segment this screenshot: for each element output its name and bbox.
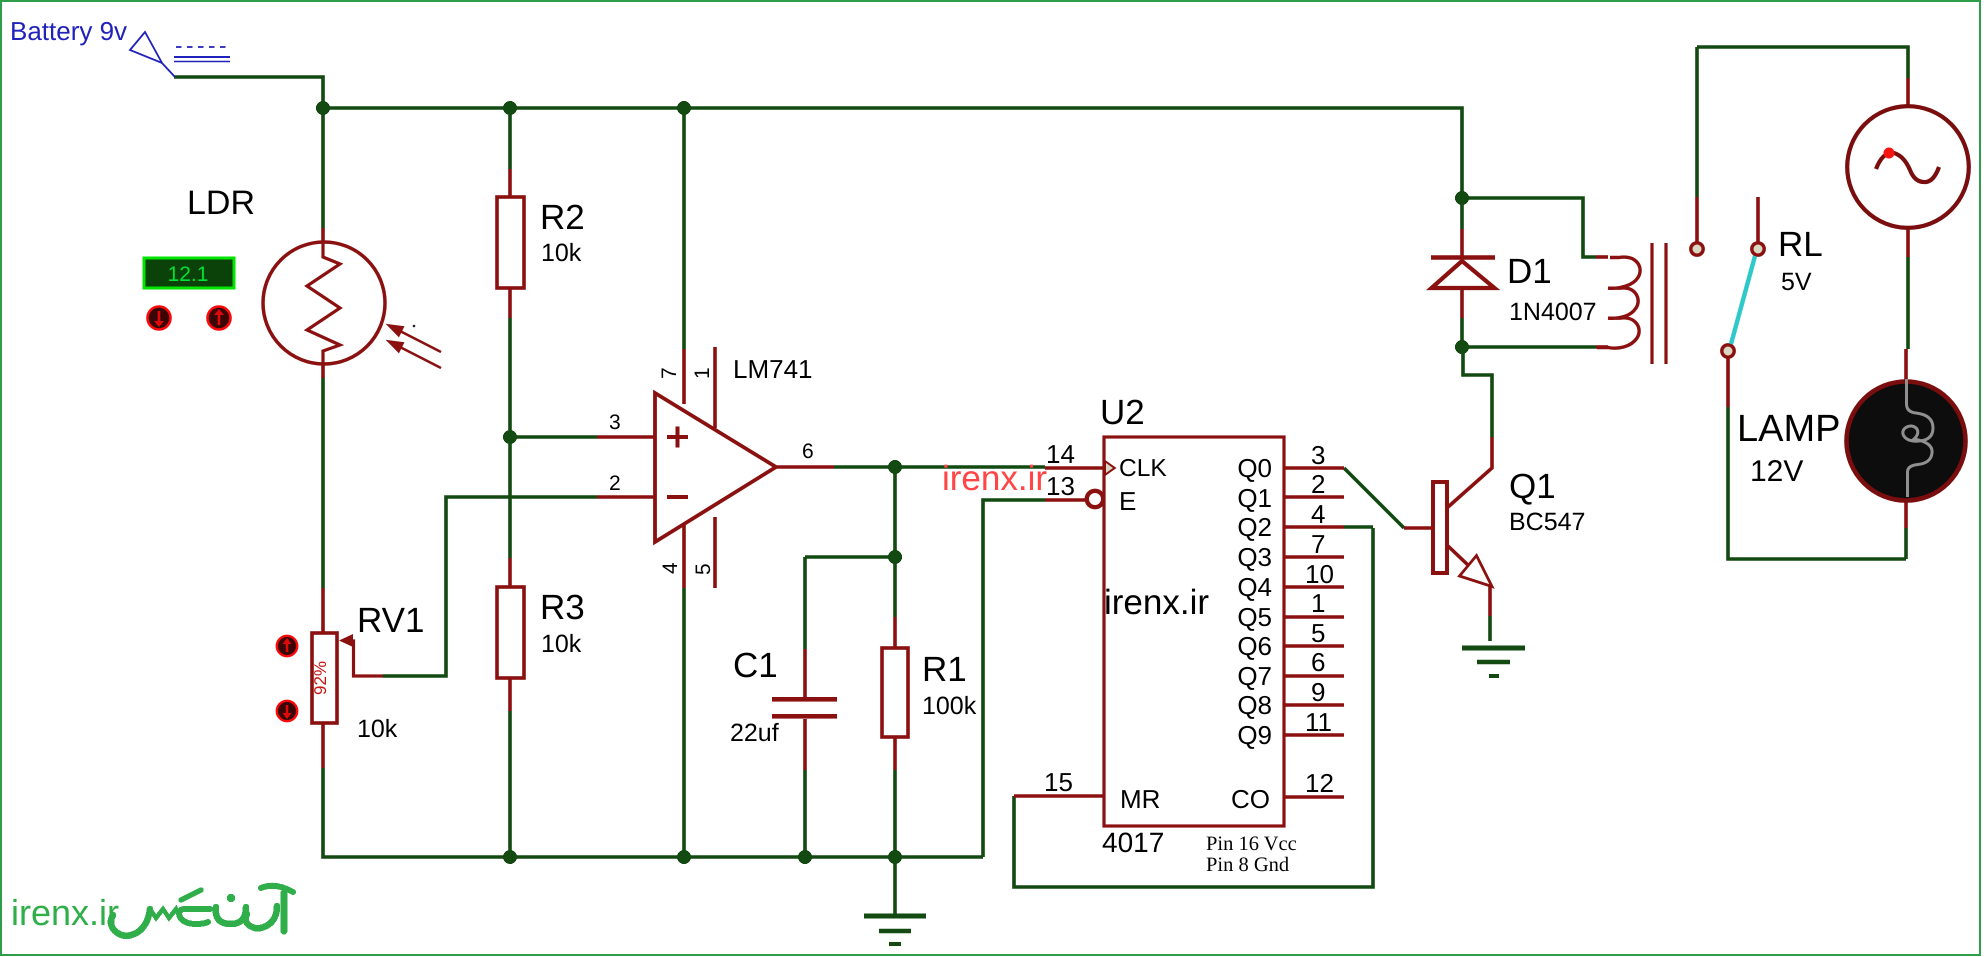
svg-text:12.1: 12.1 [168,263,209,286]
wire top bus [323,108,1462,198]
svg-text:Pin 16 Vcc: Pin 16 Vcc [1206,833,1297,855]
transistor Q1 emitter arrow [1460,556,1493,587]
svg-text:Q0: Q0 [1237,453,1272,483]
svg-text:6: 6 [802,440,814,463]
svg-text:irenx.ir: irenx.ir [1104,583,1209,622]
svg-text:2: 2 [1311,469,1325,499]
op-amp plus [667,427,688,448]
wire Q1 emitter lead [1448,546,1490,616]
svg-text:irenx.ir: irenx.ir [11,892,119,933]
svg-text:12V: 12V [1750,455,1803,488]
LDR light arrows [389,326,441,369]
node bus pin4 [677,850,691,864]
wire R2 top [508,108,512,169]
relay NO contact [1722,345,1734,357]
wire switch to lamp bottom [1728,407,1906,559]
wire C1 bottom to bus [803,770,807,857]
svg-text:CO: CO [1231,784,1270,814]
wire R1 top lead [893,617,897,648]
svg-text:R3: R3 [540,588,585,627]
svg-text:10k: 10k [357,715,398,743]
wire top-right link [1697,47,1908,78]
svg-text:U2: U2 [1100,393,1145,432]
node D1 top [1455,191,1469,205]
svg-text:MR: MR [1120,784,1160,814]
wire R2 bottom lead [508,288,512,318]
wire coil top lead [1596,255,1608,259]
svg-text:13: 13 [1046,471,1075,501]
relay pole contact [1691,243,1703,255]
wire AC top stub [1906,78,1910,107]
wire opamp pin5 stub [713,517,717,588]
wire op-amp out to CLK [834,465,1045,469]
LDR body [263,242,385,364]
wire Q3 pin lead [1284,555,1344,559]
svg-text:R2: R2 [540,198,585,237]
watermark Persian ayrenks [111,886,293,936]
wire LDR bottom lead [321,364,325,378]
wire RV1 bottom lead [321,723,325,768]
wire RV1 bottom to ground bus [323,768,983,857]
svg-text:2: 2 [609,472,621,495]
wire NC stub [1756,197,1760,242]
svg-text:Q1: Q1 [1509,467,1556,506]
svg-text:11: 11 [1305,707,1332,737]
svg-text:C1: C1 [733,646,778,685]
wire RV1 wiper to pin2 [383,497,597,676]
svg-text:Q6: Q6 [1237,631,1272,661]
op-amp minus [667,495,688,499]
svg-text:6: 6 [1311,647,1325,677]
wire Q6 pin lead [1284,644,1344,648]
wire Q1 pin lead [1284,495,1344,499]
LDR voltmeter display [144,258,234,288]
svg-text:3: 3 [1311,440,1325,470]
wire CO pin lead [1284,795,1344,799]
node pin7 top [677,101,691,115]
capacitor C1 plates [772,697,837,719]
wire E lead [1045,498,1086,502]
wire Q5 pin lead [1284,615,1344,619]
wire lamp bottom red stub [1904,499,1908,528]
op-amp U1 triangle [655,393,776,542]
svg-text:3: 3 [609,411,621,434]
svg-text:RV1: RV1 [357,601,424,640]
diode D1 [1431,258,1495,289]
svg-text:92%: 92% [311,661,330,695]
wire R1 bottom lead [893,737,897,770]
svg-text:7: 7 [1311,529,1325,559]
wire E pin to bus [983,500,1045,857]
wire RV1 top lead [321,588,325,633]
wire opamp pin4 lead [682,522,686,588]
svg-text:Pin 8 Gnd: Pin 8 Gnd [1206,854,1289,876]
svg-text:1: 1 [1311,588,1325,618]
wire R1 bottom to bus [893,770,897,857]
svg-text:CLK: CLK [1119,455,1167,482]
wire R3 top lead [508,558,512,587]
transistor Q1 base bar [1433,482,1447,573]
svg-text:12: 12 [1305,768,1334,798]
svg-text:LM741: LM741 [733,354,813,384]
wire CLK lead [1045,466,1104,470]
wire relay pole riser [1695,47,1699,197]
wire node to op-amp pin3 [510,435,597,439]
wire LDR bottom to RV1 [321,378,325,588]
resistor R3 [497,587,524,678]
wire switch bottom stub [1726,358,1730,407]
svg-text:9: 9 [1311,677,1325,707]
wire C1 top [805,555,895,559]
svg-text:E: E [1119,486,1136,516]
RV1 button down [277,701,297,721]
node R2 top [503,101,517,115]
node op-amp out [888,460,902,474]
svg-text:LDR: LDR [187,184,255,222]
node bus R1 [888,850,902,864]
relay core lines [1652,243,1666,364]
wire coil bottom lead [1596,345,1608,349]
wire Q0 to Q1 base diagonal [1344,468,1404,528]
node bus R3 [503,850,517,864]
wire lamp bottom stub [1904,528,1908,559]
wire Q2 lead extension [1344,525,1373,529]
wire relay coil bottom link [1462,345,1596,349]
wire pin7 [682,108,686,349]
relay coil [1597,257,1640,348]
IC U2 4017 box [1104,437,1284,826]
LDR button up [208,307,231,330]
svg-text:10k: 10k [541,630,582,658]
wire battery to top bus [174,77,323,108]
wire out node down [893,467,897,558]
wire Q4 pin lead [1284,585,1344,589]
wire lamp top stub [1904,349,1908,383]
CLK input arrow [1103,459,1117,478]
wire Q1 base lead [1404,526,1433,530]
wire D1 bottom [1460,318,1464,348]
relay switch blade [1731,256,1755,344]
wire D1 top junction down [1460,198,1464,229]
potentiometer RV1 wiper arrow [339,634,383,676]
svg-text:4: 4 [659,562,682,574]
wire emitter to ground [1488,616,1492,641]
potentiometer RV1 body [312,633,337,723]
wire Q1 collector lead [1448,437,1492,507]
node bus C1 [798,850,812,864]
wire AC to lamp [1906,257,1910,349]
wire C1 top lead [803,557,807,649]
svg-text:Q8: Q8 [1237,690,1272,720]
svg-text:Q3: Q3 [1237,542,1272,572]
wire opamp pin7 lead [682,349,686,404]
svg-text:100k: 100k [922,692,977,720]
wire opamp pin6 lead [776,465,834,469]
wire Q0 pin lead [1284,466,1344,470]
node pin3 [503,430,517,444]
svg-text:irenx.ir: irenx.ir [942,459,1047,498]
wire C1 top plate lead [803,649,807,697]
svg-text:Q9: Q9 [1237,720,1272,750]
wire LDR top lead [321,228,325,243]
wire opamp pin2 lead [597,495,656,499]
wire D1 cathode lead [1460,229,1464,257]
LDR button down [148,307,171,330]
svg-text:LAMP: LAMP [1737,408,1840,450]
svg-text:10k: 10k [541,239,582,267]
svg-text:D1: D1 [1507,252,1552,291]
wire pole stub [1695,197,1699,242]
svg-text:1: 1 [691,367,714,379]
resistor R1 [882,648,908,737]
svg-text:4017: 4017 [1102,827,1164,858]
wire Q7 pin lead [1284,674,1344,678]
svg-text:10: 10 [1305,559,1334,589]
RV1 button up [277,636,297,656]
svg-text:7: 7 [658,367,681,379]
svg-text:5V: 5V [1781,268,1812,296]
node battery bus [316,101,330,115]
svg-text:15: 15 [1044,767,1073,797]
resistor R2 [497,197,524,288]
svg-text:1N4007: 1N4007 [1509,298,1597,326]
svg-text:Q5: Q5 [1237,602,1272,632]
svg-text:Q4: Q4 [1237,572,1272,602]
svg-text:22uf: 22uf [730,719,779,747]
wire Q8 pin lead [1284,703,1344,707]
artifact dot [413,325,416,328]
wire D1 anode lead [1460,286,1464,318]
svg-text:BC547: BC547 [1509,508,1585,536]
wire MR loop [1014,528,1373,887]
wire Q2 pin lead [1284,525,1344,529]
node C1/R1 top [888,550,902,564]
wire R2 top lead [508,169,512,197]
svg-text:14: 14 [1046,439,1075,469]
node D1 bottom [1455,340,1469,354]
wire R1 top lead [893,557,897,617]
svg-text:R1: R1 [922,650,967,689]
battery symbol [130,32,230,77]
wire opamp pin3 lead [597,435,656,439]
wire opamp pin1 stub [713,347,717,428]
svg-text:Battery 9v: Battery 9v [10,16,127,46]
wire MR lead [1014,794,1104,798]
wire C1 bottom plate lead [803,719,807,770]
wire R2 bottom to node [508,318,512,558]
wire relay coil top link [1462,198,1596,257]
wire battery bus down to LDR [321,108,325,228]
svg-text:Q2: Q2 [1237,512,1272,542]
wire collector riser [1463,348,1492,437]
ground under Q1 [1462,648,1525,676]
wire Q9 pin lead [1284,733,1344,737]
svg-text:5: 5 [692,563,715,575]
wire R3 bottom to bus [508,711,512,857]
wire R3 bottom lead [508,678,512,711]
wire AC bottom stub [1906,228,1910,257]
ground under R1 [864,916,926,944]
AC source [1847,106,1969,228]
svg-text:Q1: Q1 [1237,483,1272,513]
svg-text:5: 5 [1311,618,1325,648]
relay NC contact [1752,243,1764,255]
lamp [1847,379,1966,501]
E inversion bubble [1087,491,1103,507]
svg-text:4: 4 [1311,499,1325,529]
wire pin4 to bus [682,588,686,857]
svg-text:RL: RL [1778,225,1823,264]
svg-text:Q7: Q7 [1237,661,1272,691]
wire ground stub under bus [893,857,897,914]
